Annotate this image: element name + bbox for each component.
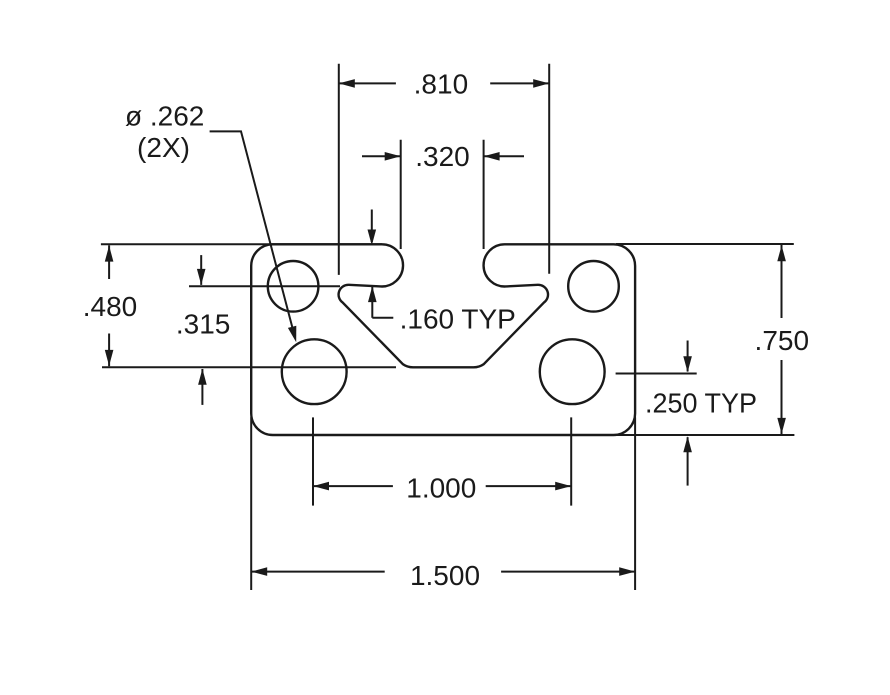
svg-text:.750: .750 [755, 325, 810, 356]
svg-text:(2X): (2X) [137, 132, 190, 163]
svg-text:.320: .320 [415, 141, 470, 172]
svg-text:ø .262: ø .262 [125, 100, 204, 131]
svg-text:.480: .480 [83, 291, 138, 322]
svg-text:1.500: 1.500 [410, 560, 480, 591]
svg-text:.315: .315 [176, 308, 231, 339]
svg-text:.250 TYP: .250 TYP [645, 387, 757, 418]
svg-text:1.000: 1.000 [406, 473, 476, 504]
svg-text:.160 TYP: .160 TYP [400, 304, 516, 335]
svg-text:.810: .810 [414, 69, 469, 100]
